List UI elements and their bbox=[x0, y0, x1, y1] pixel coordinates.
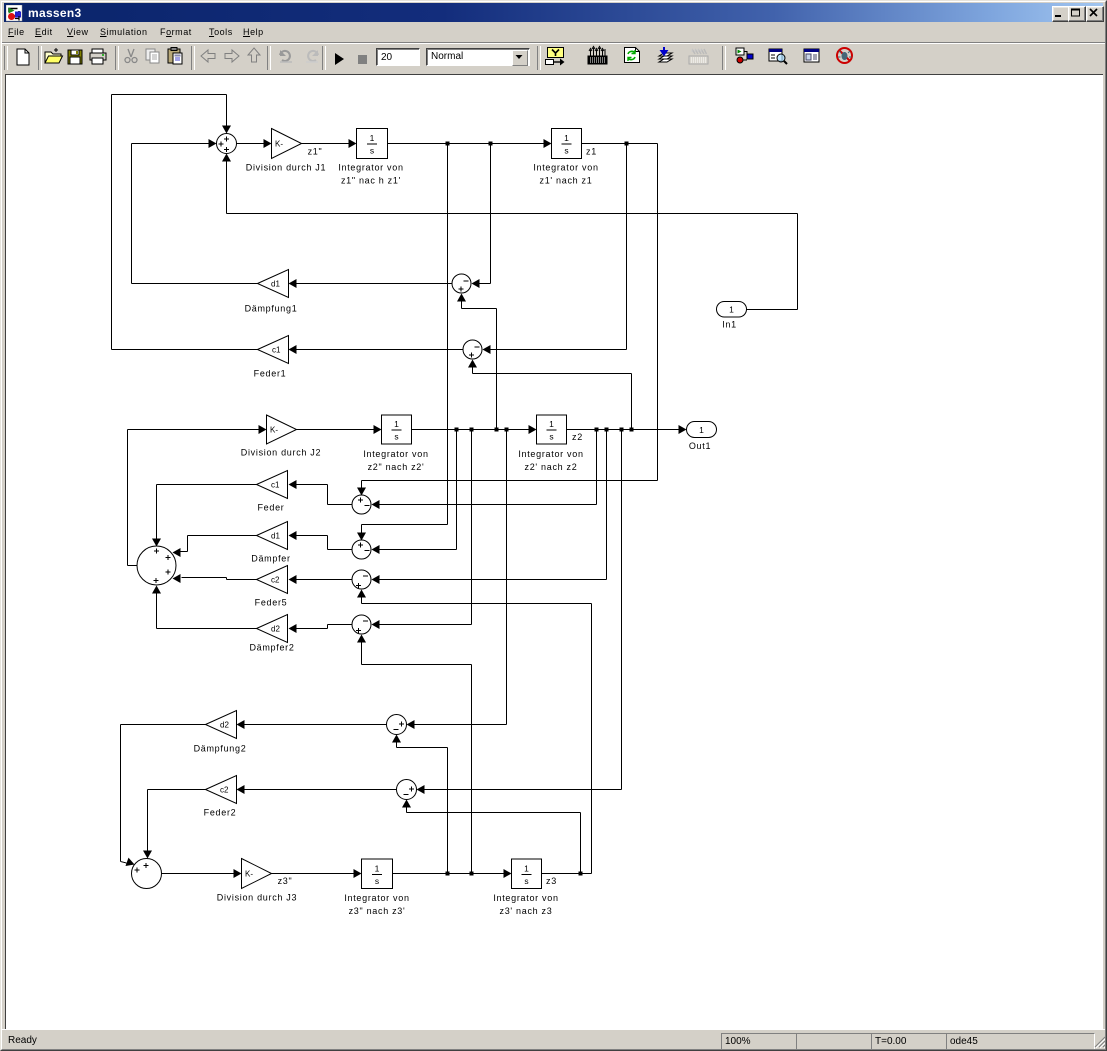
junction z2 tap d bbox=[630, 428, 634, 432]
svg-text:Feder1: Feder1 bbox=[254, 369, 287, 379]
svg-text:Out1: Out1 bbox=[689, 441, 711, 451]
maximize button bbox=[1068, 6, 1086, 22]
wire sum7 to gain J3 bbox=[162, 869, 242, 878]
svg-text:s: s bbox=[375, 876, 379, 886]
gain block Daempfer bbox=[251, 522, 290, 564]
svg-text:d2: d2 bbox=[220, 721, 229, 730]
gain block Feder5 bbox=[255, 566, 288, 608]
svg-text:z2: z2 bbox=[572, 432, 583, 442]
wire sumD to Daempfer bbox=[289, 531, 353, 550]
junction z3' tap b bbox=[470, 872, 474, 876]
junction z2' tap d bbox=[505, 428, 509, 432]
toolbar icon copy bbox=[146, 49, 159, 63]
junction z1' tap b bbox=[489, 142, 493, 146]
wire z3 riser to sum3 bottom bbox=[357, 590, 592, 874]
svg-text:s: s bbox=[549, 432, 553, 442]
node label z1'' bbox=[308, 147, 323, 157]
sum block SumFeder bbox=[352, 495, 371, 514]
junction z2 tap c bbox=[620, 428, 624, 432]
wire integrator z3'' to integrator z3' with taps bbox=[393, 869, 512, 878]
toolbar icon redo bbox=[306, 50, 318, 62]
input port In1 bbox=[717, 302, 747, 330]
svg-text:Feder2: Feder2 bbox=[204, 808, 237, 818]
node label z3 bbox=[546, 876, 557, 886]
toolbar icon print bbox=[90, 49, 106, 64]
wire z3' tap to sum5 bottom bbox=[392, 735, 448, 874]
wire sumB to Feder1 bbox=[289, 345, 464, 354]
wire z2 tap to sum3 right bbox=[372, 430, 607, 585]
sum block big Sum (z2'' assembly) bbox=[137, 546, 176, 585]
toolbar bbox=[2, 42, 1105, 73]
wire sum4 to Daempfer2 bbox=[289, 624, 353, 633]
wire integrator z1'' to integrator z1' with taps bbox=[388, 139, 552, 148]
wire z3' riser to sum4 bottom bbox=[357, 635, 472, 874]
svg-text:z1" nac h z1': z1" nac h z1' bbox=[341, 176, 401, 186]
wire z2 tap to sum6 right bbox=[417, 430, 622, 795]
menu bar bbox=[2, 23, 1105, 42]
junction z2' tap b bbox=[470, 428, 474, 432]
svg-text:Division durch J1: Division durch J1 bbox=[246, 163, 326, 173]
integrator block z1'' nach z1' bbox=[338, 129, 403, 186]
gain block Daempfung2 bbox=[194, 711, 247, 754]
node label z2 bbox=[572, 432, 583, 442]
svg-text:c2: c2 bbox=[220, 786, 229, 795]
sum block SumDaempfer bbox=[352, 540, 371, 559]
gain block Division durch J1 bbox=[246, 129, 326, 173]
svg-text:Integrator von: Integrator von bbox=[363, 449, 428, 459]
toolbar icon up bbox=[248, 48, 260, 62]
svg-text:1: 1 bbox=[375, 863, 380, 873]
toolbar icon paste bbox=[168, 48, 182, 65]
toolbar icon undo bbox=[280, 50, 292, 62]
integrator block z3'' nach z3' bbox=[344, 859, 409, 916]
wire In1 to sum1 bottom bbox=[222, 154, 798, 310]
svg-text:z2' nach z2: z2' nach z2 bbox=[525, 462, 578, 472]
wire gain J2 to integrator z2'' bbox=[297, 425, 382, 434]
wire Feder to big sum top bbox=[152, 485, 257, 547]
minimize button bbox=[1052, 6, 1070, 22]
svg-text:Integrator von: Integrator von bbox=[518, 449, 583, 459]
svg-text:z1: z1 bbox=[586, 147, 597, 157]
toolbar icon debug bbox=[837, 48, 852, 63]
svg-text:d1: d1 bbox=[271, 280, 280, 289]
wire sum5 to Daempfung2 bbox=[237, 720, 388, 729]
wire z2' tap to sumD right bbox=[372, 430, 457, 555]
svg-text:Feder5: Feder5 bbox=[255, 598, 288, 608]
svg-text:d2: d2 bbox=[271, 625, 280, 634]
wire z2' tap to sum5 right bbox=[407, 430, 507, 730]
sum block SumB (Feder1 feed) bbox=[463, 340, 482, 359]
gain block Division durch J3 bbox=[217, 859, 297, 903]
toolbar icon open bbox=[45, 48, 63, 63]
title bar bbox=[4, 3, 1103, 22]
wire sumF to Feder bbox=[289, 480, 353, 505]
wire Feder1 to sum1 top bbox=[112, 95, 258, 350]
wire sum1 to gain J1 bbox=[237, 139, 272, 148]
junction z3' tap a bbox=[446, 872, 450, 876]
wire Feder2 to sum7 top bbox=[143, 790, 206, 859]
svg-text:s: s bbox=[524, 876, 528, 886]
svg-text:1: 1 bbox=[370, 133, 375, 143]
wire integrator z1' out to corner bbox=[582, 143, 658, 145]
toolbar icon gray-grid bbox=[689, 49, 708, 64]
svg-text:Division durch J3: Division durch J3 bbox=[217, 893, 297, 903]
gain block Feder2 bbox=[204, 776, 237, 818]
junction z3 tap bbox=[579, 872, 583, 876]
svg-text:z3" nach z3': z3" nach z3' bbox=[349, 906, 406, 916]
toolbar icon back bbox=[201, 50, 215, 62]
wire z2' tap to sum4 right bbox=[372, 430, 472, 630]
svg-text:c1: c1 bbox=[271, 481, 280, 490]
svg-text:Dämpfung1: Dämpfung1 bbox=[245, 304, 298, 314]
svg-text:1: 1 bbox=[549, 419, 554, 429]
svg-text:1: 1 bbox=[564, 133, 569, 143]
svg-text:z3: z3 bbox=[546, 876, 557, 886]
svg-text:K-: K- bbox=[245, 870, 253, 879]
wire integrator z2'' to integrator z2' with taps bbox=[412, 425, 537, 434]
wire z2 tap to sumF right bbox=[372, 430, 597, 510]
junction z2' tap c bbox=[495, 428, 499, 432]
toolbar icon library bbox=[736, 48, 753, 63]
toolbar icon stop bbox=[358, 55, 367, 64]
toolbar icon scope bbox=[546, 48, 565, 66]
toolbar icon play bbox=[335, 53, 344, 65]
status bar bbox=[2, 1029, 1105, 1050]
toolbar icon build bbox=[659, 47, 672, 62]
junction z2 tap b bbox=[605, 428, 609, 432]
gain block Feder1 bbox=[254, 336, 289, 379]
wire z3 tap to sum6 bottom bbox=[402, 800, 581, 874]
svg-text:z1": z1" bbox=[308, 147, 323, 157]
svg-text:s: s bbox=[370, 146, 374, 156]
wire Daempfer to big sum NE bbox=[173, 536, 257, 558]
wire gain J1 to integrator z1'' bbox=[302, 139, 357, 148]
output port Out1 bbox=[687, 422, 717, 452]
svg-text:1: 1 bbox=[524, 863, 529, 873]
sum block Sum6 (Feder2 feed) bbox=[397, 780, 417, 800]
wire sumA to Daempfung1 bbox=[289, 279, 453, 288]
integrator block z2'' nach z2' bbox=[363, 415, 428, 472]
svg-text:Integrator von: Integrator von bbox=[533, 163, 598, 173]
gain block Division durch J2 bbox=[241, 415, 321, 458]
svg-text:Integrator von: Integrator von bbox=[344, 893, 409, 903]
svg-text:d1: d1 bbox=[271, 532, 280, 541]
sum block Sum7 (z3 row) bbox=[132, 859, 162, 889]
gain block Daempfung1 bbox=[245, 270, 298, 314]
wire integrator z3' out to riser bbox=[542, 873, 592, 875]
wire integrator z2' to Out1 with taps bbox=[567, 425, 687, 434]
toolbar icon update bbox=[625, 48, 640, 63]
svg-text:z2" nach z2': z2" nach z2' bbox=[368, 462, 425, 472]
gain block Feder bbox=[257, 471, 288, 513]
wire sum3 to Feder5 bbox=[289, 575, 353, 584]
sum block Sum3 (Feder5 feed) bbox=[352, 570, 371, 589]
wire z1 tap to sumB right bbox=[483, 144, 627, 355]
wire Feder5 to big sum SE bbox=[173, 574, 257, 583]
integrator block z2' nach z2 bbox=[518, 415, 583, 472]
wire z1' tap to sumD top bbox=[357, 144, 448, 541]
integrator block z1' nach z1 bbox=[533, 129, 598, 186]
toolbar icon window bbox=[804, 49, 819, 62]
svg-text:s: s bbox=[394, 432, 398, 442]
wire z1 corner to sumF top bbox=[357, 144, 658, 496]
sum block Sum5 (Daempfung2 feed) bbox=[387, 715, 407, 735]
node label z1 bbox=[586, 147, 597, 157]
svg-text:Dämpfer: Dämpfer bbox=[251, 554, 290, 564]
svg-text:s: s bbox=[564, 146, 568, 156]
svg-text:Integrator von: Integrator von bbox=[493, 893, 558, 903]
junction z1' tap a bbox=[446, 142, 450, 146]
svg-text:K-: K- bbox=[270, 426, 278, 435]
title bar icon bbox=[6, 5, 26, 25]
svg-text:z3' nach z3: z3' nach z3 bbox=[500, 906, 553, 916]
close button bbox=[1086, 6, 1104, 22]
svg-text:Dämpfung2: Dämpfung2 bbox=[194, 744, 247, 754]
junction z1 tap bbox=[625, 142, 629, 146]
wire Daempfung1 to sum1 left bbox=[132, 139, 258, 284]
integrator block z3' nach z3 bbox=[493, 859, 558, 916]
svg-text:Dämpfer2: Dämpfer2 bbox=[249, 643, 294, 653]
junction z2 tap a bbox=[595, 428, 599, 432]
node label z3'' bbox=[278, 876, 293, 886]
toolbar icon save bbox=[68, 50, 82, 64]
svg-text:z3": z3" bbox=[278, 876, 293, 886]
sum block SumA (Daempfung1 feed) bbox=[452, 274, 471, 293]
wire z1' tap to sumA right bbox=[472, 144, 491, 289]
wire z2' tap to sumA bottom bbox=[457, 294, 497, 430]
toolbar icon new bbox=[17, 49, 29, 65]
sum block Sum1 (z1 row) bbox=[217, 134, 237, 154]
toolbar icon browser bbox=[769, 49, 787, 64]
toolbar icon params bbox=[588, 47, 607, 65]
toolbar icon forward bbox=[225, 50, 239, 62]
sum block Sum4 (Daempfer2 feed) bbox=[352, 615, 371, 634]
svg-text:Division durch J2: Division durch J2 bbox=[241, 448, 321, 458]
svg-text:Integrator von: Integrator von bbox=[338, 163, 403, 173]
svg-text:1: 1 bbox=[729, 305, 734, 315]
wire sum6 to Feder2 bbox=[237, 785, 398, 794]
wire big sum to gain J2 bbox=[128, 425, 267, 566]
svg-text:z1' nach z1: z1' nach z1 bbox=[540, 176, 593, 186]
svg-text:1: 1 bbox=[394, 419, 399, 429]
wire z2 tap to sumB bottom bbox=[468, 360, 632, 430]
svg-text:1: 1 bbox=[699, 425, 704, 435]
svg-text:Feder: Feder bbox=[257, 503, 284, 513]
toolbar icon cut bbox=[125, 49, 137, 63]
svg-text:c2: c2 bbox=[271, 576, 280, 585]
junction z2' tap a bbox=[455, 428, 459, 432]
wire Daempfer2 to big sum bottom bbox=[152, 586, 257, 629]
gain block Daempfer2 bbox=[249, 615, 294, 653]
wire Daempfung2 to sum7 NW bbox=[121, 725, 206, 867]
svg-text:In1: In1 bbox=[722, 320, 737, 330]
svg-text:K-: K- bbox=[275, 140, 283, 149]
svg-text:c1: c1 bbox=[272, 346, 281, 355]
wire gain J3 to integrator z3'' bbox=[272, 869, 362, 878]
